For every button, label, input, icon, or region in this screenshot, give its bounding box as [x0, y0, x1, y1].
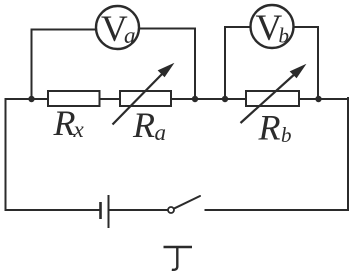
svg-text:a: a — [124, 23, 136, 48]
label Ra — [132, 105, 166, 145]
svg-text:R: R — [258, 108, 281, 148]
wire bottom left to battery — [6, 209, 101, 211]
wire Vb branch up-left — [225, 27, 250, 99]
node junction right of Ra — [192, 96, 198, 102]
node junction left of Rb wire — [222, 96, 228, 102]
wire between Rx and Ra — [100, 98, 121, 100]
node junction right of Rb — [315, 96, 321, 102]
svg-text:b: b — [281, 123, 292, 147]
label Rx — [53, 103, 85, 143]
wire right outer — [347, 98, 349, 210]
wire switch to right corner — [206, 209, 349, 211]
label Rb — [258, 108, 292, 148]
wire battery to switch — [109, 209, 167, 211]
rheostat Rb — [241, 65, 306, 123]
svg-text:R: R — [132, 105, 155, 145]
node junction left of Rx — [28, 96, 34, 102]
rheostat Ra — [113, 64, 174, 125]
switch S — [168, 196, 200, 213]
svg-text:R: R — [53, 103, 76, 143]
svg-text:x: x — [73, 117, 85, 142]
wire Va branch right-down — [140, 29, 195, 100]
wire left outer — [5, 99, 7, 210]
svg-text:a: a — [155, 120, 167, 145]
wire Vb branch right-down — [295, 27, 319, 99]
caption 丁 (figure label) — [164, 247, 193, 270]
wire Rb to right edge — [299, 98, 348, 100]
resistor Rx — [48, 91, 100, 106]
voltmeter Va — [96, 6, 139, 50]
voltmeter Vb — [251, 5, 294, 49]
battery — [101, 195, 109, 228]
wire middle left segment — [6, 98, 49, 100]
svg-text:b: b — [279, 24, 290, 48]
wire Va branch up-left — [32, 30, 96, 100]
wire between Ra and Rb — [171, 98, 246, 100]
